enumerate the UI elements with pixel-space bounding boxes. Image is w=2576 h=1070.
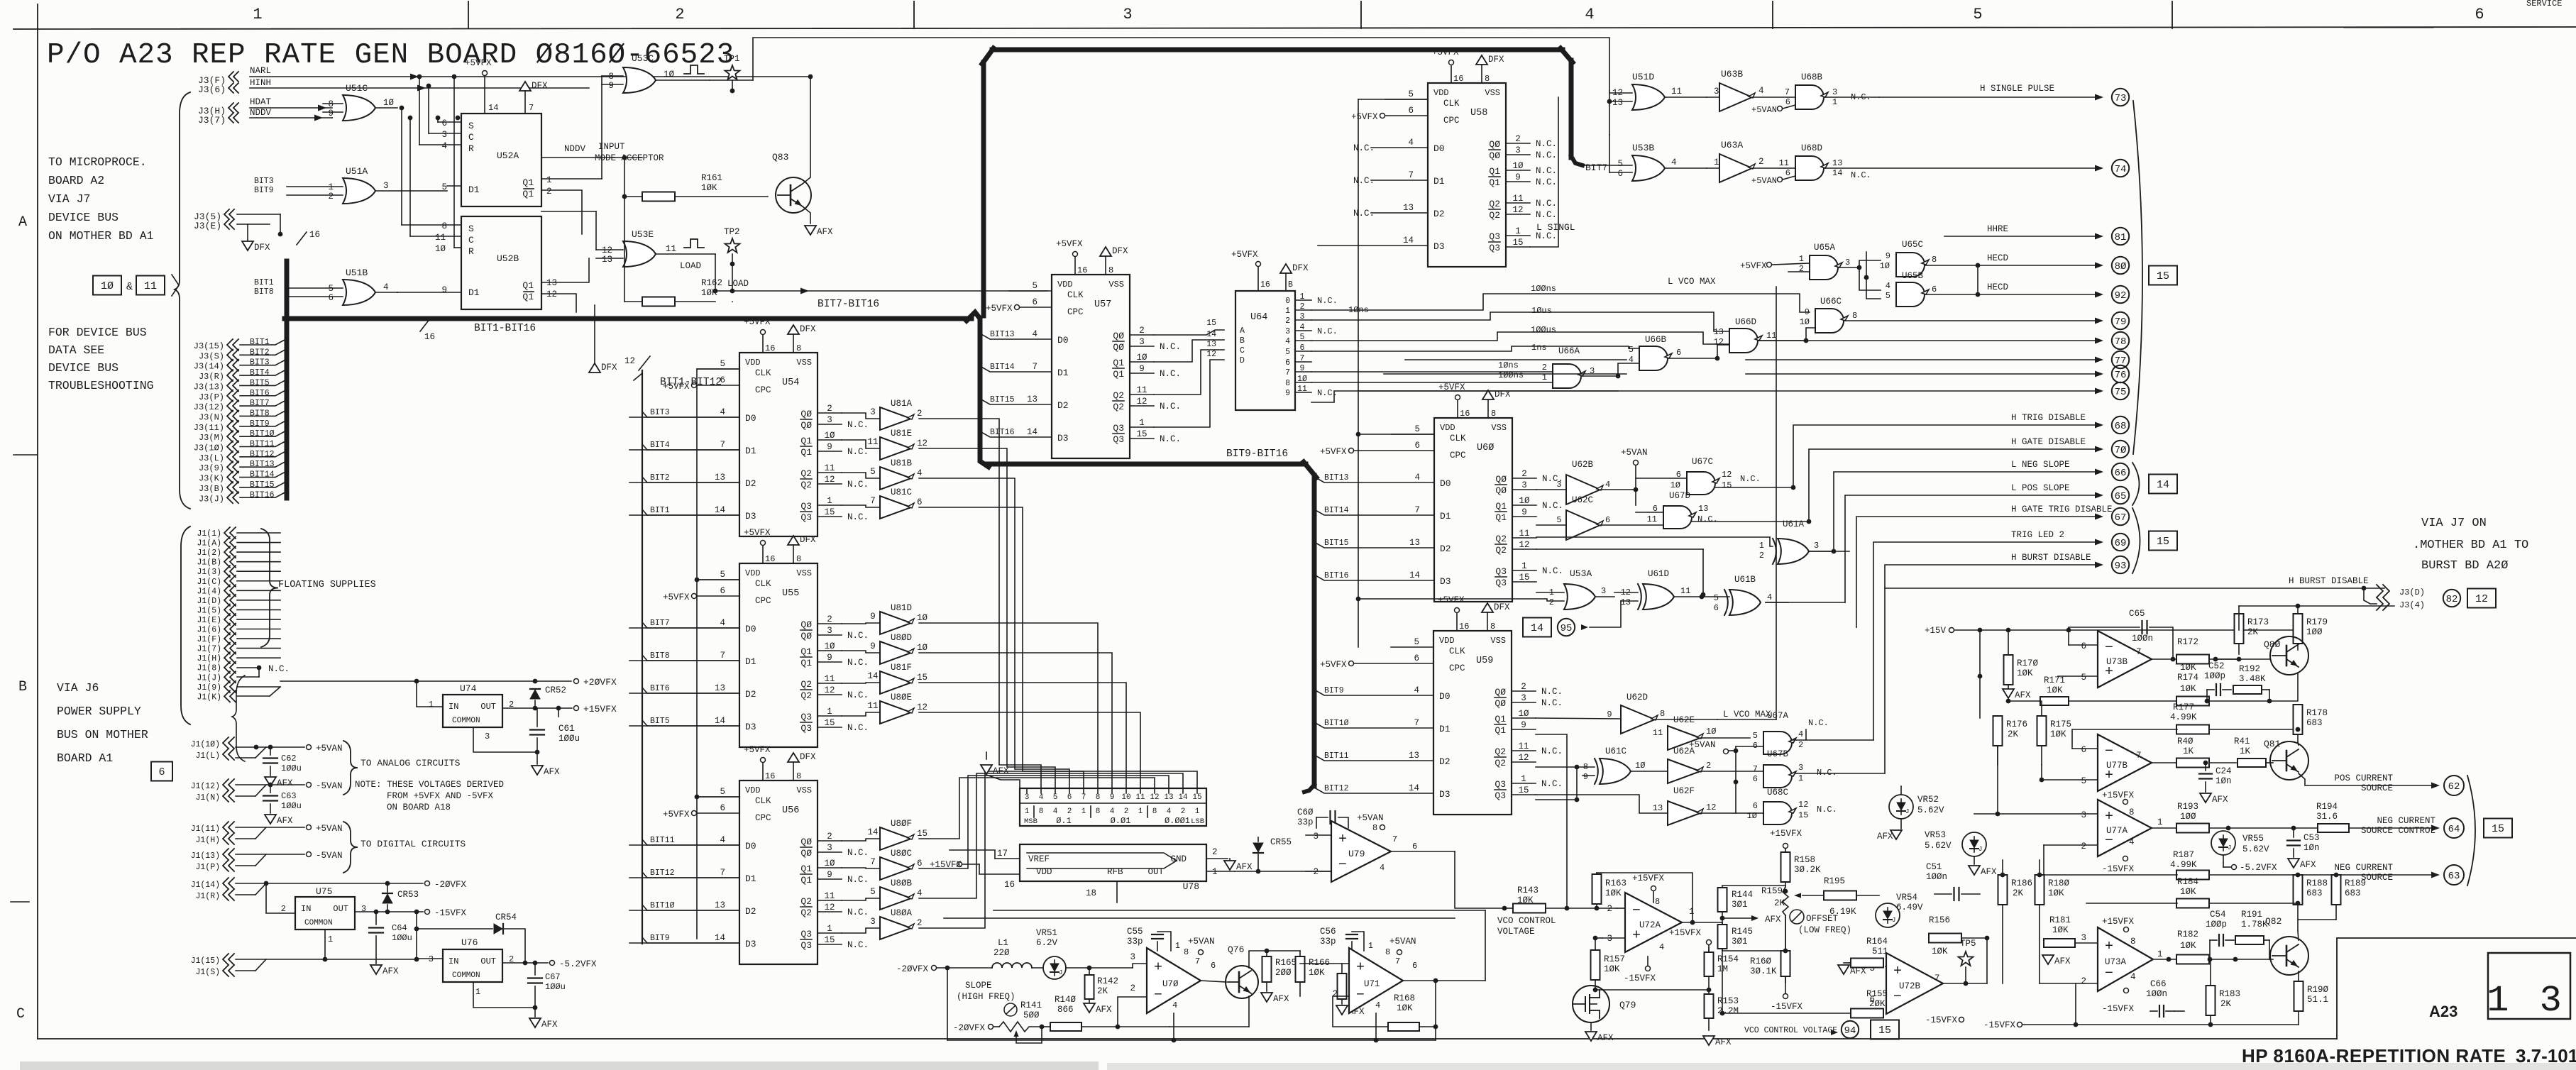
svg-text:8: 8 [1096,793,1101,802]
wire +15V top to R179 [2239,605,2394,607]
wires BIT feeds U55 [647,627,739,629]
svg-text:Q2: Q2 [1489,210,1500,221]
svg-text:QØ: QØ [1489,150,1500,161]
grid tick marks top [468,1,469,28]
svg-text:1: 1 [1175,942,1180,951]
svg-text:11: 11 [1680,586,1690,596]
svg-text:683: 683 [2306,888,2323,898]
svg-text:2ØK: 2ØK [1869,999,1886,1009]
svg-text:U67A: U67A [1767,711,1789,721]
ground DFX above U56 [788,753,799,762]
svg-text:1ØK: 1ØK [2180,941,2196,951]
svg-text:R193: R193 [2177,802,2198,812]
svg-text:6: 6 [1753,801,1758,811]
ground DFX above U6Ø [1482,390,1494,399]
wire bus vertical V2b to U59/U60 [1312,475,1317,786]
svg-text:7Ø: 7Ø [2115,445,2127,456]
svg-text:R14Ø: R14Ø [1055,995,1077,1005]
svg-text:4: 4 [1039,793,1044,802]
svg-text:BIT16: BIT16 [1324,571,1349,580]
resistor R165 [1262,956,1272,982]
svg-text:5: 5 [2081,776,2086,786]
svg-text:J1(6): J1(6) [197,626,221,635]
wire U52A D1 from U51A output [447,185,461,187]
svg-text:A: A [1240,326,1245,336]
svg-text:2: 2 [1521,469,1527,479]
svg-text:DFX: DFX [1488,55,1504,65]
svg-text:66: 66 [2115,468,2127,479]
wire J1(8)/J1(J) N.C. [237,667,259,668]
svg-text:U76: U76 [461,937,478,948]
svg-text:N.C.: N.C. [1536,166,1557,176]
svg-text:6: 6 [1785,168,1790,178]
svg-text:J3(E): J3(E) [194,221,221,231]
terminal -5.2VFX [550,961,555,966]
svg-text:R195: R195 [1824,876,1845,886]
svg-text:12: 12 [1512,205,1523,215]
svg-text:12: 12 [1206,350,1216,359]
resistor R179 [2294,614,2303,644]
output circle 65 [2112,487,2129,504]
svg-text:C: C [468,235,474,246]
svg-text:1: 1 [1521,774,1526,784]
resistor R166 [1296,956,1305,982]
svg-text:5: 5 [870,887,876,897]
svg-text:Q2: Q2 [1495,746,1506,757]
svg-text:9: 9 [827,870,832,880]
wire R171 to U73B plus [2042,675,2058,677]
svg-text:&: & [126,281,133,293]
svg-text:BIT11: BIT11 [650,836,675,845]
svg-text:BIT16: BIT16 [250,490,275,500]
terminal -20VFX lower [989,1025,993,1030]
svg-text:Q2: Q2 [800,690,812,701]
svg-text:J1(1Ø): J1(1Ø) [191,740,220,749]
svg-text:2: 2 [1759,551,1764,561]
svg-text:3: 3 [870,917,876,927]
resistor R180 [2035,875,2044,905]
svg-text:U68B: U68B [1801,72,1823,82]
decoder U64 [1235,291,1295,410]
svg-text:+5VAN: +5VAN [316,824,343,834]
svg-text:3: 3 [1521,480,1527,490]
svg-text:3: 3 [1123,6,1132,23]
ground AFX below Q79 [1585,1032,1597,1041]
svg-text:2: 2 [827,832,832,842]
wire Q76 collector to R165 [1249,951,1267,968]
svg-text:4: 4 [1110,807,1115,816]
svg-text:J1(4): J1(4) [197,587,221,596]
svg-text:VDD: VDD [1440,423,1455,433]
svg-text:12: 12 [546,289,557,299]
register U55 [739,563,818,747]
wire U55 U56 left bus feed [697,369,739,939]
svg-text:3: 3 [1798,763,1803,773]
ground AFX below VR53 [1969,866,1980,875]
svg-text:2: 2 [1212,847,1218,857]
svg-text:D1: D1 [745,656,756,667]
svg-text:BIT15: BIT15 [990,395,1015,404]
svg-text:Q76: Q76 [1228,944,1244,955]
svg-text:BIT7: BIT7 [250,399,270,408]
ground AFX below R170 [2003,689,2014,698]
svg-text:6: 6 [1605,515,1610,525]
svg-text:U81C: U81C [891,487,912,497]
svg-text:R174: R174 [2177,673,2198,683]
svg-text:D0: D0 [1433,143,1445,154]
svg-text:N.C.: N.C. [847,480,869,490]
svg-text:-5VAN: -5VAN [316,851,343,861]
svg-text:8: 8 [1184,947,1189,957]
svg-text:683: 683 [2306,718,2323,728]
svg-text:R187: R187 [2173,850,2194,860]
wires U52A left pin connections [438,121,461,123]
svg-text:15: 15 [1518,785,1529,795]
svg-text:J: J [2228,844,2231,851]
svg-text:+5VFX: +5VFX [1438,595,1465,605]
svg-text:J3(15): J3(15) [194,341,224,351]
svg-text:6: 6 [720,375,725,385]
svg-text:TRIG LED 2: TRIG LED 2 [2011,530,2064,540]
svg-text:1: 1 [1689,907,1695,917]
svg-text:BIT3: BIT3 [250,358,270,368]
svg-text:N.C.: N.C. [847,658,869,668]
svg-text:U52A: U52A [497,150,519,161]
svg-text:1: 1 [1138,807,1143,816]
svg-text:U53A: U53A [1570,568,1592,579]
svg-text:3: 3 [441,130,447,140]
svg-text:D1: D1 [1057,368,1069,378]
svg-text:U6Ø: U6Ø [1477,443,1494,453]
svg-text:CLK: CLK [755,368,771,378]
brace group 14 slopes [2132,463,2140,505]
svg-text:-15VFX: -15VFX [434,908,467,918]
svg-text:1Ø: 1Ø [1880,261,1890,271]
svg-text:Q2: Q2 [1489,199,1500,209]
svg-text:C63: C63 [281,791,297,801]
svg-text:AFX: AFX [544,767,560,777]
svg-text:3Ø.1K: 3Ø.1K [1750,966,1777,976]
ground AFX below C61 [532,766,543,775]
svg-text:4: 4 [720,835,725,845]
svg-text:DFX: DFX [254,243,270,253]
svg-text:9: 9 [827,442,832,452]
svg-text:1Ø: 1Ø [1800,317,1810,327]
wire U60 Q2bar long [1536,548,1703,550]
svg-text:6: 6 [1785,97,1790,107]
svg-text:9: 9 [870,641,876,651]
svg-text:6: 6 [1676,348,1681,358]
svg-text:BURST BD A2Ø: BURST BD A2Ø [2421,559,2508,573]
svg-text:7: 7 [1785,87,1790,97]
svg-text:51.1: 51.1 [2307,995,2328,1005]
svg-text:2: 2 [1758,157,1764,167]
wire riser joins [1791,485,1796,490]
diode CR55 [1257,837,1259,842]
svg-text:AFX: AFX [1715,1037,1732,1047]
svg-text:J3(9): J3(9) [199,463,224,473]
svg-text:N.C.: N.C. [1160,369,1181,379]
svg-text:BOARD A1: BOARD A1 [57,751,113,765]
svg-text:-15VFX: -15VFX [2102,864,2135,874]
svg-text:CPC: CPC [1449,663,1465,673]
svg-text:CLK: CLK [755,579,771,589]
svg-text:14: 14 [2157,479,2169,491]
svg-text:3: 3 [429,954,434,964]
svg-text:1: 1 [1212,867,1218,877]
svg-text:12: 12 [1518,753,1529,763]
svg-text:R175: R175 [2050,719,2071,729]
svg-text:14: 14 [867,671,878,681]
svg-text:TROUBLESHOOTING: TROUBLESHOOTING [48,379,154,392]
wires U57 outputs to U64 [1154,330,1224,335]
svg-text:QØ: QØ [1489,139,1500,150]
svg-text:J: J [1892,917,1895,924]
resistor R160 [1781,951,1790,976]
svg-text:6: 6 [917,859,923,868]
svg-text:4: 4 [1285,337,1290,346]
wire bus vertical BIT1-BIT16 from J3 [285,261,290,498]
svg-text:J3(J): J3(J) [199,494,224,504]
svg-text:CLK: CLK [1443,99,1460,109]
output circle 75 [2112,382,2129,399]
svg-text:+5VFX: +5VFX [1432,48,1459,57]
svg-text:CPC: CPC [755,385,771,395]
svg-text:N.C.: N.C. [1160,402,1181,412]
svg-text:9: 9 [328,109,334,118]
svg-text:15: 15 [1206,319,1216,328]
op-amp U79 [1331,821,1391,882]
svg-text:BIT13: BIT13 [990,330,1015,339]
svg-text:683: 683 [2345,888,2361,898]
ground DFX below SCR wires [589,363,600,373]
svg-text:VREF: VREF [1028,854,1050,864]
ground DFX above U64 [1280,264,1292,273]
svg-text:5: 5 [720,787,725,797]
svg-text:1ØØp: 1ØØp [2204,671,2225,681]
svg-text:N.C.: N.C. [847,908,869,917]
svg-text:J3(K): J3(K) [199,474,224,484]
svg-text:33p: 33p [1297,817,1314,827]
svg-text:8: 8 [328,99,334,109]
svg-text:2K: 2K [1097,986,1108,996]
svg-text:FROM +5VFX AND -5VFX: FROM +5VFX AND -5VFX [387,791,494,801]
svg-text:J1(K): J1(K) [197,693,221,702]
svg-text:5: 5 [1408,89,1414,99]
svg-text:R176: R176 [2006,719,2027,729]
svg-text:ON BOARD A18: ON BOARD A18 [387,802,451,812]
svg-text:VSS: VSS [1108,280,1124,289]
svg-text:HECD: HECD [1987,282,2008,292]
svg-text:U53B: U53B [1632,143,1654,153]
svg-text:−: − [1356,987,1365,1003]
svg-text:QØ: QØ [800,848,812,859]
svg-text:N.C.: N.C. [1542,566,1563,576]
svg-text:+: + [2105,809,2113,825]
svg-text:11: 11 [824,674,835,684]
svg-text:2: 2 [1130,983,1135,993]
svg-text:TP5: TP5 [1960,939,1976,949]
svg-text:6: 6 [1412,961,1417,971]
svg-text:FLOATING SUPPLIES: FLOATING SUPPLIES [278,580,376,590]
svg-text:N.C.: N.C. [1317,326,1338,336]
svg-text:NEG CURRENT: NEG CURRENT [2334,863,2393,873]
svg-text:Q1: Q1 [522,177,534,188]
svg-text:VOLTAGE: VOLTAGE [1497,927,1535,937]
svg-text:1: 1 [1139,418,1145,428]
svg-text:6: 6 [1285,358,1290,368]
svg-text:R19Ø: R19Ø [2307,985,2329,995]
ref box 14 and circle 95 [1523,618,1551,637]
svg-text:6: 6 [1753,741,1758,751]
svg-text:Q2: Q2 [800,480,812,490]
svg-text:U81E: U81E [891,429,912,439]
svg-text:11: 11 [1135,793,1145,802]
svg-text:1Ø: 1Ø [664,70,675,79]
svg-text:4: 4 [2130,972,2136,982]
svg-text:Q1: Q1 [800,864,812,874]
svg-text:13: 13 [1409,538,1420,548]
wire R157 R154 join [1595,989,1709,991]
svg-text:J3(13): J3(13) [194,382,224,392]
ground AFX below R165 [1261,993,1272,1002]
svg-text:+5VFX: +5VFX [1351,112,1378,122]
svg-text:1ØK: 1ØK [2048,888,2064,898]
svg-text:B: B [1240,336,1245,346]
svg-text:J3(M): J3(M) [199,433,224,443]
svg-text:VDD: VDD [1433,88,1449,98]
svg-text:12: 12 [917,702,928,712]
svg-text:R179: R179 [2306,617,2328,627]
svg-text:2: 2 [2081,842,2086,851]
svg-text:D2: D2 [1057,400,1069,411]
register U58 [1428,83,1506,267]
svg-text:AFX: AFX [2212,795,2228,805]
wire U73A feedback loop [2086,983,2150,1011]
svg-text:CPC: CPC [755,596,771,606]
svg-text:U62E: U62E [1673,715,1695,725]
svg-text:−: − [2105,966,2113,982]
pot adjust OFFSET LOW FREQ [1790,910,1804,924]
svg-text:C62: C62 [281,754,297,763]
svg-text:2: 2 [1313,867,1319,877]
svg-text:7: 7 [870,857,876,867]
power -15VFX below R160 [1783,994,1788,999]
svg-text:8: 8 [1385,947,1390,957]
svg-text:14: 14 [1409,783,1419,793]
resistor R176 [1993,716,2003,746]
svg-text:J1(9): J1(9) [197,683,221,693]
svg-text:1: 1 [328,934,333,944]
wire offset network frame [1722,886,1785,951]
svg-text:+5VFX: +5VFX [986,304,1013,314]
svg-text:U58: U58 [1470,108,1487,118]
svg-text:+: + [2105,939,2113,955]
svg-text:R172: R172 [2177,637,2198,647]
svg-text:2: 2 [546,187,552,197]
svg-text:10: 10 [1121,793,1130,802]
svg-text:1ØØn: 1ØØn [2132,634,2153,644]
capacitor C61 top stub [536,708,538,727]
svg-text:13: 13 [715,473,725,482]
resistor R183 [2206,986,2216,1015]
resistor R142 [1085,975,1094,999]
svg-text:Q2: Q2 [800,908,812,918]
svg-text:+15VFX: +15VFX [1669,928,1702,938]
svg-text:N.C.: N.C. [1353,143,1375,153]
svg-text:COMMON: COMMON [452,717,480,725]
wire 10ns run short [1311,371,1553,373]
svg-text:15: 15 [1722,480,1732,490]
svg-text:QØ: QØ [1113,342,1124,353]
svg-text:13: 13 [1698,504,1708,514]
svg-text:Q1: Q1 [1495,725,1506,736]
svg-text:AFX: AFX [277,778,293,788]
wires U59 D inputs from bus V2b [1314,690,1433,695]
svg-text:L VCO MAX: L VCO MAX [1668,277,1716,287]
svg-text:75: 75 [2115,387,2127,398]
wire bus top loop left bevel [982,48,993,64]
svg-text:5: 5 [1886,291,1890,301]
svg-text:3: 3 [1521,693,1526,703]
wire bus top loop horizontal H2 [992,48,1563,53]
svg-text:R: R [468,143,474,154]
svg-text:NDDV: NDDV [250,108,272,118]
svg-text:74: 74 [2115,164,2127,175]
svg-text:U51C: U51C [346,83,368,94]
svg-text:8: 8 [1372,823,1377,833]
svg-text:+15VFX: +15VFX [1632,873,1665,883]
brace TO DIGITAL CIRCUITS [343,822,358,873]
svg-text:U72A: U72A [1639,920,1661,930]
svg-text:J1(H): J1(H) [197,654,221,663]
svg-text:3: 3 [827,626,832,636]
ground AFX at R164 [1838,965,1849,974]
svg-text:+: + [1632,928,1641,944]
output circle 74 [2112,160,2129,177]
svg-text:U67C: U67C [1692,457,1713,467]
svg-text:R194: R194 [2316,802,2338,812]
svg-text:16: 16 [309,230,320,240]
svg-text:1: 1 [2157,817,2163,827]
svg-text:1ØØu: 1ØØu [558,734,580,744]
svg-text:+5VAN: +5VAN [1621,448,1648,458]
svg-text:12: 12 [1706,802,1716,812]
grid left tick A/B [13,454,38,456]
svg-text:OUT: OUT [480,702,496,712]
svg-text:7: 7 [870,496,876,506]
wire to circle 74 [1824,167,2101,169]
capacitor C53 [2293,828,2294,837]
svg-text:QØ: QØ [1113,331,1124,341]
svg-text:VSS: VSS [796,785,812,795]
svg-text:N.C.: N.C. [1541,779,1563,789]
svg-text:J3(4): J3(4) [2399,600,2425,610]
svg-text:82: 82 [2446,594,2458,605]
svg-text:QØ: QØ [800,420,812,431]
svg-text:1: 1 [253,6,262,23]
bus width marker 12 [639,356,650,370]
svg-text:BIT8: BIT8 [250,409,270,418]
svg-text:J1(8): J1(8) [197,664,221,673]
svg-text:15: 15 [2157,270,2169,282]
svg-text:AFX: AFX [1850,966,1866,976]
svg-text:U81B: U81B [891,458,913,468]
svg-text:D0: D0 [1057,335,1069,346]
wire H SINGLE PULSE to circle 73 [1824,96,1879,98]
svg-text:2K: 2K [2247,627,2259,637]
svg-text:J1(D): J1(D) [197,597,221,606]
